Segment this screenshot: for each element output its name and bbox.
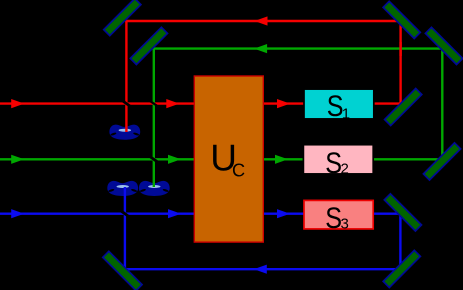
box S1 [304,89,374,119]
arrow blue input [11,209,24,218]
fiber spool green delay [139,181,170,196]
wire red top feedback [125,20,400,22]
wire blue Uc to S3 [263,212,304,214]
wire red vertical right [399,21,401,104]
wire green input horizontal [0,158,195,160]
wire blue S3 to corner [373,212,400,214]
svg-text:S: S [325,146,342,180]
arrow blue bottom feedback left [254,265,267,274]
arrow red into Uc [166,99,179,108]
svg-text:3: 3 [341,216,349,233]
svg-text:2: 2 [341,161,349,178]
svg-text:1: 1 [342,106,350,123]
wire red input horizontal [0,102,195,104]
wire green S2 to corner [373,158,442,160]
wire green Uc to S2 [263,158,303,160]
svg-text:S: S [325,201,342,235]
wire blue input horizontal [0,212,195,214]
arrow green into Uc [168,155,181,164]
mirror top-left red [104,0,141,36]
svg-text:C: C [232,161,245,181]
wire green top feedback [153,47,443,49]
arrow blue into Uc [168,209,181,218]
wire blue vertical right [399,214,401,270]
wire red S1 to corner [374,102,401,104]
arrow green into S2 [275,155,288,164]
mirror top-right green [425,27,462,64]
wire blue vertical feedback left [124,187,126,269]
mirror right of S1 [385,88,422,125]
fiber spool red delay [109,125,140,140]
node crossing slash blue/blue [121,211,129,217]
mirror top-right red [383,1,420,38]
wire red vertical right overdraw at green crossing [399,42,401,56]
node crossing slash red/red [122,101,130,107]
arrow red input [11,99,24,108]
arrow red top feedback left [255,16,268,25]
box S3 [304,200,373,229]
wire green vertical right [441,49,443,160]
arrow red into S1 [277,99,290,108]
wire blue bottom feedback [124,268,401,270]
mirror top-left green [130,27,167,64]
arrow green input [11,155,24,164]
mirror bottom-right [383,250,420,287]
arrow blue into S3 [277,209,290,218]
fiber spool blue delay [107,181,138,196]
box S2 [303,145,373,174]
mirror right of S2 [423,143,460,180]
wire red vertical feedback left [125,21,127,132]
mirror right of S3 [384,194,421,231]
node crossing slash green/green [150,156,158,162]
arrow green top feedback left [254,44,267,53]
box Uc [194,76,263,242]
wire red Uc to S1 [263,102,304,104]
wire green vertical feedback left [153,49,155,187]
node crossing slash green/red [150,101,158,107]
mirror bottom-left [103,251,142,290]
